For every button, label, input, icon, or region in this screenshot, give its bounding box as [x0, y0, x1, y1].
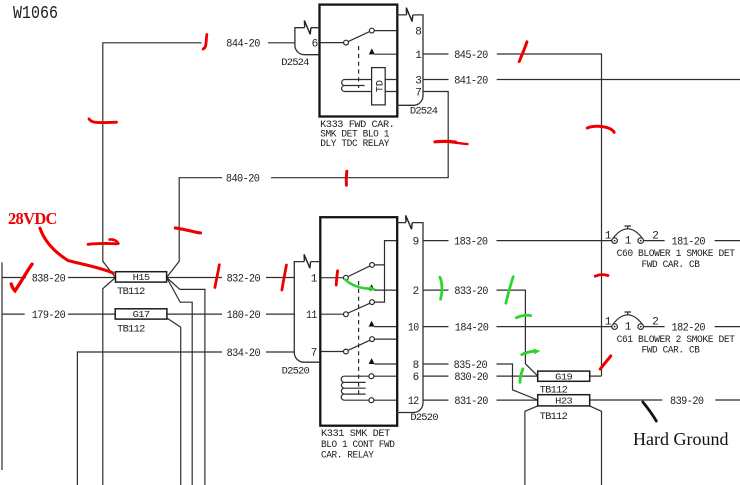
svg-text:11: 11 [306, 310, 318, 322]
svg-text:3: 3 [415, 75, 421, 87]
svg-text:H15: H15 [133, 273, 150, 283]
svg-text:D2520: D2520 [282, 367, 310, 378]
svg-text:7: 7 [311, 347, 317, 359]
svg-text:179-20: 179-20 [32, 310, 65, 322]
svg-text:8: 8 [415, 27, 421, 39]
svg-text:TD: TD [374, 80, 386, 92]
svg-text:H23: H23 [555, 396, 572, 406]
svg-text:845-20: 845-20 [454, 50, 488, 62]
svg-text:839-20: 839-20 [670, 396, 704, 408]
svg-text:2: 2 [652, 316, 658, 328]
svg-text:838-20: 838-20 [32, 273, 65, 285]
svg-text:28VDC: 28VDC [8, 209, 57, 228]
svg-text:180-20: 180-20 [227, 310, 261, 322]
svg-text:D2524: D2524 [281, 58, 309, 69]
svg-text:G19: G19 [555, 372, 572, 382]
svg-text:1: 1 [625, 236, 632, 248]
svg-text:1: 1 [311, 274, 318, 286]
svg-text:844-20: 844-20 [226, 39, 259, 51]
svg-text:D2520: D2520 [410, 413, 438, 424]
svg-text:2: 2 [652, 230, 658, 242]
svg-text:834-20: 834-20 [227, 348, 261, 360]
svg-text:1: 1 [605, 316, 612, 328]
svg-text:G17: G17 [133, 310, 150, 320]
svg-text:833-20: 833-20 [454, 286, 488, 298]
svg-text:183-20: 183-20 [454, 237, 488, 249]
svg-text:10: 10 [408, 323, 419, 335]
svg-text:830-20: 830-20 [454, 372, 488, 384]
svg-text:840-20: 840-20 [226, 174, 260, 186]
svg-text:D2524: D2524 [410, 106, 438, 117]
svg-text:181-20: 181-20 [672, 237, 706, 249]
svg-text:TB112: TB112 [540, 411, 568, 423]
svg-text:TB112: TB112 [117, 286, 145, 298]
svg-text:Hard Ground: Hard Ground [633, 429, 728, 449]
svg-text:12: 12 [408, 396, 419, 408]
svg-text:6: 6 [312, 39, 318, 51]
svg-text:8: 8 [413, 360, 419, 372]
svg-text:FWD CAR. CB: FWD CAR. CB [642, 346, 700, 357]
svg-text:BLO 1 CONT FWD: BLO 1 CONT FWD [321, 440, 395, 451]
svg-text:CAR. RELAY: CAR. RELAY [321, 451, 374, 462]
svg-text:DLY TDC RELAY: DLY TDC RELAY [320, 139, 389, 150]
svg-text:7: 7 [415, 87, 421, 99]
svg-text:W1066: W1066 [13, 4, 58, 24]
svg-text:832-20: 832-20 [227, 273, 261, 285]
svg-text:1: 1 [415, 50, 422, 62]
svg-text:184-20: 184-20 [455, 323, 489, 335]
svg-text:TB112: TB112 [540, 384, 568, 396]
svg-text:6: 6 [413, 372, 419, 384]
svg-text:835-20: 835-20 [454, 360, 488, 372]
svg-text:182-20: 182-20 [672, 323, 706, 335]
svg-text:841-20: 841-20 [454, 75, 488, 87]
svg-text:831-20: 831-20 [454, 396, 488, 408]
svg-text:2: 2 [413, 286, 419, 298]
svg-text:C60 BLOWER 1 SMOKE DET: C60 BLOWER 1 SMOKE DET [617, 249, 735, 260]
svg-text:C61 BLOWER 2 SMOKE DET: C61 BLOWER 2 SMOKE DET [617, 335, 735, 346]
svg-text:1: 1 [605, 230, 612, 242]
svg-text:FWD CAR. CB: FWD CAR. CB [642, 260, 700, 271]
svg-text:9: 9 [413, 237, 419, 249]
svg-text:K331 SMK DET: K331 SMK DET [321, 429, 390, 440]
svg-text:1: 1 [625, 322, 632, 334]
svg-text:TB112: TB112 [117, 323, 145, 335]
